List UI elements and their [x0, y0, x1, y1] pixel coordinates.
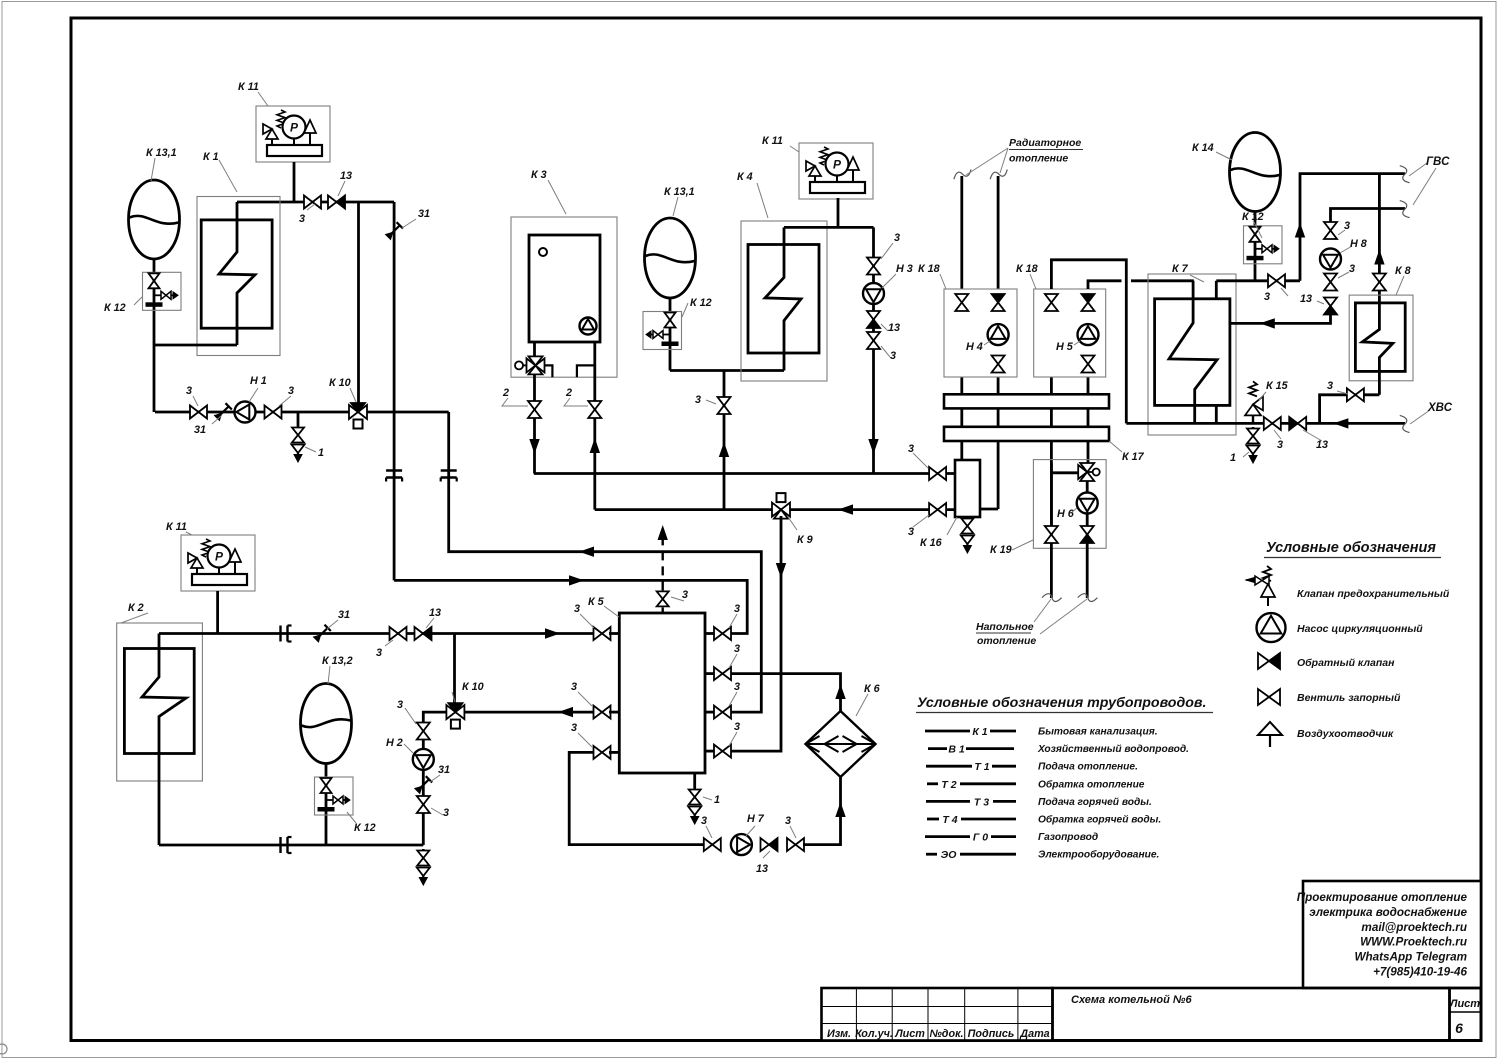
boiler K2 bottom header: [159, 844, 423, 847]
svg-text:WWW.Proektech.ru: WWW.Proektech.ru: [1360, 936, 1467, 949]
svg-text:К 8: К 8: [1395, 265, 1411, 277]
check valve 13 right of H7: [761, 838, 770, 851]
svg-text:1: 1: [714, 794, 720, 806]
pipe legend Т 3: [926, 800, 970, 803]
label 1: [305, 447, 316, 452]
label H3: [882, 274, 896, 288]
pump H1: [235, 402, 256, 423]
svg-text:К 5: К 5: [588, 596, 605, 608]
wire K11 drop to K2 header: [216, 591, 219, 634]
svg-text:2: 2: [565, 387, 572, 399]
svg-text:К 7: К 7: [1172, 263, 1189, 275]
wire K8 bottom to HVS: [1320, 395, 1380, 424]
svg-text:3: 3: [571, 681, 577, 693]
valve 2 on K3 left drop: [528, 401, 541, 410]
valve group K12 on tank K13,2: [315, 777, 354, 815]
svg-text:Изм.: Изм.: [827, 1028, 851, 1040]
flow arrow right: [570, 576, 583, 585]
svg-text:31: 31: [194, 424, 206, 436]
label 2: [564, 398, 588, 406]
svg-text:3: 3: [734, 643, 740, 655]
svg-text:К 12: К 12: [104, 302, 126, 314]
label 3: [790, 826, 796, 838]
heat exchanger K7 body: [1155, 299, 1230, 406]
svg-text:Кол.уч.: Кол.уч.: [855, 1028, 893, 1040]
svg-text:Т 2: Т 2: [941, 779, 956, 791]
svg-text:31: 31: [438, 764, 450, 776]
label K5: [604, 606, 619, 617]
label 3: [706, 826, 712, 838]
svg-text:3: 3: [682, 589, 688, 601]
valve 3 on HVS: [1264, 417, 1273, 430]
flow arrow right to K5: [546, 629, 559, 638]
svg-text:13: 13: [756, 863, 768, 875]
manifold bar K17 upper: [944, 394, 1109, 408]
plug cock 31 under H2: [414, 776, 432, 794]
svg-text:К 6: К 6: [864, 683, 881, 695]
K7 secondary top stub: [1215, 281, 1218, 299]
label 13: [763, 851, 770, 858]
break mark HVS: [1399, 414, 1410, 434]
label 3: [578, 692, 592, 706]
wire riser from top pipe to K10: [357, 202, 360, 403]
label H1: [249, 388, 258, 402]
svg-text:Т 1: Т 1: [974, 761, 989, 773]
flow arrow left HVS: [1335, 419, 1348, 428]
label K11: [186, 532, 192, 535]
wire tank K13,1 down to pump line: [153, 258, 156, 412]
label K19: [1012, 540, 1033, 550]
valve 3 on K5 vent: [657, 591, 669, 599]
break mark GVS return: [1399, 199, 1410, 219]
valve 3 on K8 bottom: [1347, 388, 1356, 401]
svg-text:К 11: К 11: [166, 521, 187, 533]
K7 heat exchanger coil: [1169, 281, 1217, 424]
label K2: [121, 613, 148, 623]
label 31: [402, 219, 416, 228]
boiler K3 body: [529, 235, 600, 342]
svg-text:К 16: К 16: [920, 537, 943, 549]
valve 3 K5 left bottom: [594, 746, 603, 759]
svg-text:Радиаторное: Радиаторное: [1009, 137, 1081, 149]
label 3: [913, 515, 929, 527]
label K1: [219, 160, 237, 192]
safety group K11 over K4: [799, 143, 873, 199]
three-way valve K9: [772, 503, 781, 517]
valve 3 before K16 top: [929, 467, 938, 480]
svg-text:3: 3: [1344, 220, 1350, 232]
svg-text:ХВС: ХВС: [1427, 402, 1453, 414]
label 13: [1303, 430, 1322, 441]
svg-text:К 18: К 18: [918, 263, 940, 275]
svg-text:К 12: К 12: [354, 822, 376, 834]
legend check valve symbol: [1258, 653, 1269, 669]
svg-text:31: 31: [418, 208, 430, 220]
flange union on riser x394: [386, 469, 402, 471]
svg-text:2: 2: [502, 387, 509, 399]
svg-text:Газопровод: Газопровод: [1038, 832, 1098, 843]
svg-text:К 14: К 14: [1192, 142, 1214, 154]
svg-text:Н 7: Н 7: [747, 813, 765, 825]
wire top supply K1: [237, 201, 394, 204]
svg-text:Условные обозначения трубопров: Условные обозначения трубопроводов.: [917, 695, 1206, 711]
valve 3 left of H1: [190, 406, 199, 419]
check valve 13 on HVS: [1289, 417, 1298, 430]
wire bar interconnects: [960, 408, 963, 426]
pump H8: [1320, 249, 1341, 270]
svg-text:Проектирование отопление: Проектирование отопление: [1297, 891, 1468, 904]
label K18: [940, 274, 946, 289]
label K8: [1396, 276, 1404, 295]
wire K18-2 left riser to K7 bottom: [1051, 260, 1126, 424]
flow arrow up K4 drop: [720, 444, 729, 457]
buffer tank K5: [619, 613, 705, 773]
wire H8 to K7 secondary: [1230, 314, 1331, 323]
three-way valve in K19: [1080, 463, 1094, 472]
legend safety valve symbol: [1263, 566, 1271, 581]
boiler K4 outer box: [741, 221, 827, 381]
check valve on K19 right: [1081, 526, 1094, 535]
wire drops below bar2: [960, 441, 963, 460]
check valve 13 on H8: [1324, 298, 1337, 307]
svg-text:mail@proektech.ru: mail@proektech.ru: [1361, 921, 1467, 934]
svg-text:3: 3: [908, 443, 914, 455]
drain under K16: [966, 517, 969, 519]
company info box: [1303, 881, 1481, 988]
label 3: [578, 733, 592, 747]
pump group K18 second box: [1034, 289, 1106, 377]
valve 3 bottom of H3: [867, 332, 880, 341]
label 2: [502, 398, 528, 406]
valve under H4: [992, 356, 1005, 365]
pipe legend Т 2: [927, 782, 938, 785]
pump H7: [731, 834, 752, 855]
svg-text:Напольное: Напольное: [976, 621, 1034, 633]
flow arrow down K3 left: [530, 440, 539, 453]
svg-text:3: 3: [785, 815, 791, 827]
pipe legend Г 0: [925, 835, 970, 838]
label K7: [1190, 275, 1204, 282]
svg-text:Лист: Лист: [1449, 998, 1480, 1010]
svg-text:3: 3: [701, 815, 707, 827]
svg-text:К 17: К 17: [1122, 451, 1145, 463]
break marks radiator: [952, 169, 972, 180]
boiler K3 right stub: [577, 365, 595, 377]
label K4: [757, 183, 768, 218]
pipe legend К 1: [925, 730, 970, 733]
flow arrow up GVS: [1296, 224, 1305, 237]
valve 3 on K7 top: [1268, 274, 1277, 287]
label 13: [881, 324, 888, 331]
svg-text:ЭО: ЭО: [941, 849, 957, 861]
svg-text:№док.: №док.: [929, 1028, 963, 1040]
radiator riser right: [997, 176, 1000, 289]
svg-text:Обратка отопление: Обратка отопление: [1038, 778, 1145, 790]
svg-text:1: 1: [318, 447, 324, 459]
flow arrow up K8 riser: [1375, 251, 1384, 264]
svg-text:3: 3: [1349, 263, 1355, 275]
svg-text:отопление: отопление: [1009, 153, 1068, 165]
label 3 near K16 top valve: [913, 453, 928, 468]
title block revision table: [822, 988, 1053, 1041]
valve on K18-2 left: [1045, 294, 1058, 303]
svg-text:13: 13: [1300, 293, 1312, 305]
wire K9 down to K5: [731, 516, 781, 751]
valve 3 under H2: [417, 796, 430, 805]
svg-text:К 18: К 18: [1016, 263, 1038, 275]
label 31: [212, 416, 221, 424]
label K15: [1259, 392, 1266, 400]
label 13: [426, 618, 434, 628]
svg-text:3: 3: [571, 722, 577, 734]
valve 3 before K16 bottom: [929, 503, 938, 516]
plug cock 31 near H1: [214, 403, 232, 421]
label H8: [1340, 246, 1352, 253]
label K12: [682, 303, 688, 317]
label K11: [258, 92, 268, 106]
valve 3 top of H3: [867, 258, 880, 267]
wire K3 right drop: [593, 342, 596, 510]
K7 secondary bottom stub: [1215, 405, 1218, 423]
label floor heating: [1034, 599, 1051, 622]
label 3: [193, 396, 198, 406]
label 3: [729, 654, 737, 668]
flow arrow up K3 right: [590, 440, 599, 453]
flow arrow down from K9: [777, 564, 786, 577]
water heater K8 outer box: [1349, 295, 1413, 381]
boiler K1 heat exchanger coil: [219, 202, 255, 345]
svg-text:3: 3: [734, 681, 740, 693]
break mark GVS supply: [1399, 164, 1410, 184]
drain 1 under K15: [1252, 427, 1255, 429]
svg-text:К 13,1: К 13,1: [146, 147, 177, 159]
svg-text:К 12: К 12: [1242, 211, 1264, 223]
heat exchanger K7 outer box: [1148, 274, 1236, 435]
boiler K3 window: [539, 248, 547, 256]
check valve 13 on K2 supply: [415, 627, 424, 640]
radiator riser left: [960, 176, 963, 289]
pipe legend Т 1: [926, 765, 972, 768]
label K9: [788, 517, 797, 530]
pump H6: [1077, 493, 1098, 514]
svg-text:13: 13: [1316, 439, 1328, 451]
flow arrow left to K10: [560, 708, 573, 717]
svg-text:3: 3: [397, 699, 403, 711]
svg-text:3: 3: [908, 526, 914, 538]
boiler K1 outer box: [197, 197, 280, 356]
boiler K4 body: [748, 245, 819, 354]
valve 3 K5 right second: [714, 667, 723, 680]
label K12: [1254, 222, 1262, 238]
pump H4: [988, 324, 1009, 345]
svg-text:Т 4: Т 4: [942, 814, 957, 826]
wire K10 to K5 return header: [449, 412, 762, 712]
water heater K8 body: [1355, 303, 1405, 372]
wire K1 return to tank: [154, 344, 237, 347]
label 13: [1317, 301, 1324, 304]
K8 heat exchanger coil: [1362, 303, 1393, 395]
plug cock 31 on riser: [385, 222, 403, 240]
valve 3 right of H1: [265, 406, 274, 419]
label 31: [430, 775, 440, 782]
svg-text:Н 2: Н 2: [386, 737, 403, 749]
wire tank2 to K4: [670, 369, 784, 372]
svg-text:3: 3: [1264, 291, 1270, 303]
svg-text:электрика водоснабжение: электрика водоснабжение: [1309, 906, 1467, 919]
label K16: [947, 517, 957, 535]
label K13,1: [673, 197, 678, 216]
label H2: [404, 744, 413, 753]
expansion tank K13,1 second: [645, 218, 696, 298]
valve 3 above H2: [417, 723, 430, 732]
label 3: [580, 614, 594, 628]
wire K18-2 right riser to K7 top: [1088, 281, 1122, 289]
label HVS: [1410, 410, 1430, 424]
label 1: [703, 797, 712, 800]
svg-text:31: 31: [338, 609, 350, 621]
plug cock 31 on K2 supply: [313, 625, 331, 643]
svg-text:13: 13: [340, 170, 352, 182]
valve 3 before K6: [787, 838, 796, 851]
label H7: [746, 826, 755, 836]
svg-text:Н 5: Н 5: [1056, 341, 1074, 353]
svg-text:WhatsApp Telegram: WhatsApp Telegram: [1354, 951, 1467, 964]
legend pump symbol: [1257, 613, 1286, 642]
manifold bar K17 lower: [944, 427, 1109, 441]
wire K19 left pipe: [1050, 463, 1053, 598]
label 13: [338, 181, 345, 196]
label K11: [790, 146, 799, 152]
svg-text:Бытовая канализация.: Бытовая канализация.: [1038, 727, 1158, 738]
label K10: [350, 388, 356, 402]
wire K19 crossover: [1051, 471, 1078, 474]
svg-text:Н 8: Н 8: [1350, 238, 1367, 250]
label K3: [548, 180, 566, 214]
break marks floor heating: [1042, 592, 1062, 603]
svg-text:13: 13: [429, 607, 441, 619]
valve group K12 on tank K13,1: [143, 272, 182, 310]
pump line H1: [155, 411, 349, 414]
label 3: [706, 400, 716, 404]
label 3: [279, 396, 291, 406]
wire K5 bottom loop to H7: [569, 752, 704, 844]
wire K19 right pipe: [1086, 481, 1089, 598]
flange union on K2 return: [279, 837, 281, 853]
svg-text:Обратный клапан: Обратный клапан: [1297, 657, 1395, 669]
valve 3 K5 left middle: [594, 706, 603, 719]
svg-text:P: P: [215, 550, 224, 564]
legend stop valve symbol: [1258, 689, 1269, 705]
label 3: [1274, 430, 1281, 439]
svg-text:К 10: К 10: [462, 681, 484, 693]
svg-text:К 13,2: К 13,2: [322, 655, 353, 667]
boiler K2 outer box: [117, 623, 203, 781]
label GVS: [1409, 163, 1427, 176]
svg-text:К 11: К 11: [238, 81, 259, 93]
valve 3 K5 right bottom: [714, 745, 723, 758]
boiler K2 body: [124, 649, 194, 754]
valve 3 top of H8: [1324, 222, 1337, 231]
four-way valve outlet stub: [545, 365, 553, 377]
drain 1 under pump line: [297, 412, 300, 426]
svg-text:К 12: К 12: [690, 297, 712, 309]
filter K6: [806, 711, 876, 777]
boiler K2 heat exchanger coil: [142, 634, 186, 846]
label 3: [881, 243, 893, 259]
svg-text:+7(985)410-19-46: +7(985)410-19-46: [1373, 966, 1467, 979]
wire bypass riser to K5 supply header: [394, 580, 747, 633]
label 31: [327, 620, 338, 629]
wire K4 drop to manifold: [723, 371, 726, 510]
return manifold wire: [595, 508, 955, 511]
svg-text:К 1: К 1: [972, 726, 987, 738]
drain under H2 line: [422, 849, 425, 851]
label 3: [671, 597, 684, 601]
boiler K1 body: [201, 220, 272, 328]
valve 3 on K2 supply: [390, 627, 399, 640]
pump H3: [863, 283, 884, 304]
wire drop to K10 second: [453, 634, 456, 705]
wire K6 to K5 right: [731, 674, 841, 711]
label 3: [405, 708, 416, 724]
label K13,2: [328, 666, 330, 684]
check valve on K18-1 right: [992, 294, 1005, 303]
pipe legend Т 4: [927, 818, 939, 821]
valve 3 under H8: [1324, 274, 1337, 283]
svg-text:Н 6: Н 6: [1057, 508, 1075, 520]
svg-text:3: 3: [734, 721, 740, 733]
check valve on K18-2 right: [1082, 294, 1095, 303]
wire K18 group risers above bar: [960, 377, 963, 394]
wire bypass riser right: [393, 202, 396, 580]
expansion tank K13,2: [301, 684, 352, 764]
check valve 13 on H3: [867, 311, 880, 320]
svg-text:Дата: Дата: [1019, 1028, 1049, 1040]
label 3: [729, 692, 737, 706]
boiler K4 heat exchanger coil: [765, 227, 801, 370]
label 3: [307, 204, 315, 210]
wire K11 drop: [293, 162, 296, 202]
supply manifold wire: [534, 472, 955, 475]
label K10: [452, 692, 455, 702]
valve under H5: [1082, 356, 1095, 365]
title block drawing name cell: [1053, 988, 1450, 1041]
svg-text:3: 3: [299, 213, 305, 225]
title block sheet cell: [1450, 988, 1482, 1041]
flow arrow down H3: [869, 440, 878, 453]
label K17: [1109, 441, 1122, 452]
svg-text:Н 3: Н 3: [896, 263, 913, 275]
svg-text:К 2: К 2: [128, 602, 144, 614]
label 3: [1281, 288, 1288, 296]
svg-text:P: P: [833, 158, 842, 172]
svg-text:Н 4: Н 4: [966, 341, 983, 353]
svg-text:Хозяйственный водопровод.: Хозяйственный водопровод.: [1037, 744, 1189, 755]
air vent arrow up: [658, 527, 667, 540]
expansion tank K13,1: [129, 180, 180, 259]
svg-text:В 1: В 1: [948, 744, 965, 756]
svg-text:Насос циркуляционный: Насос циркуляционный: [1297, 623, 1423, 635]
wire tank K13,2 down: [325, 764, 328, 846]
svg-text:Подача горячей воды.: Подача горячей воды.: [1038, 797, 1152, 808]
valve group K12 on K14: [1244, 226, 1283, 264]
svg-text:Обратка горячей воды.: Обратка горячей воды.: [1038, 814, 1161, 826]
svg-text:3: 3: [1277, 439, 1283, 451]
legend air vent symbol: [1258, 722, 1282, 735]
svg-text:3: 3: [574, 603, 580, 615]
wire K7 top to GVS riser: [1216, 279, 1300, 282]
label radiator heating: [966, 148, 1008, 175]
